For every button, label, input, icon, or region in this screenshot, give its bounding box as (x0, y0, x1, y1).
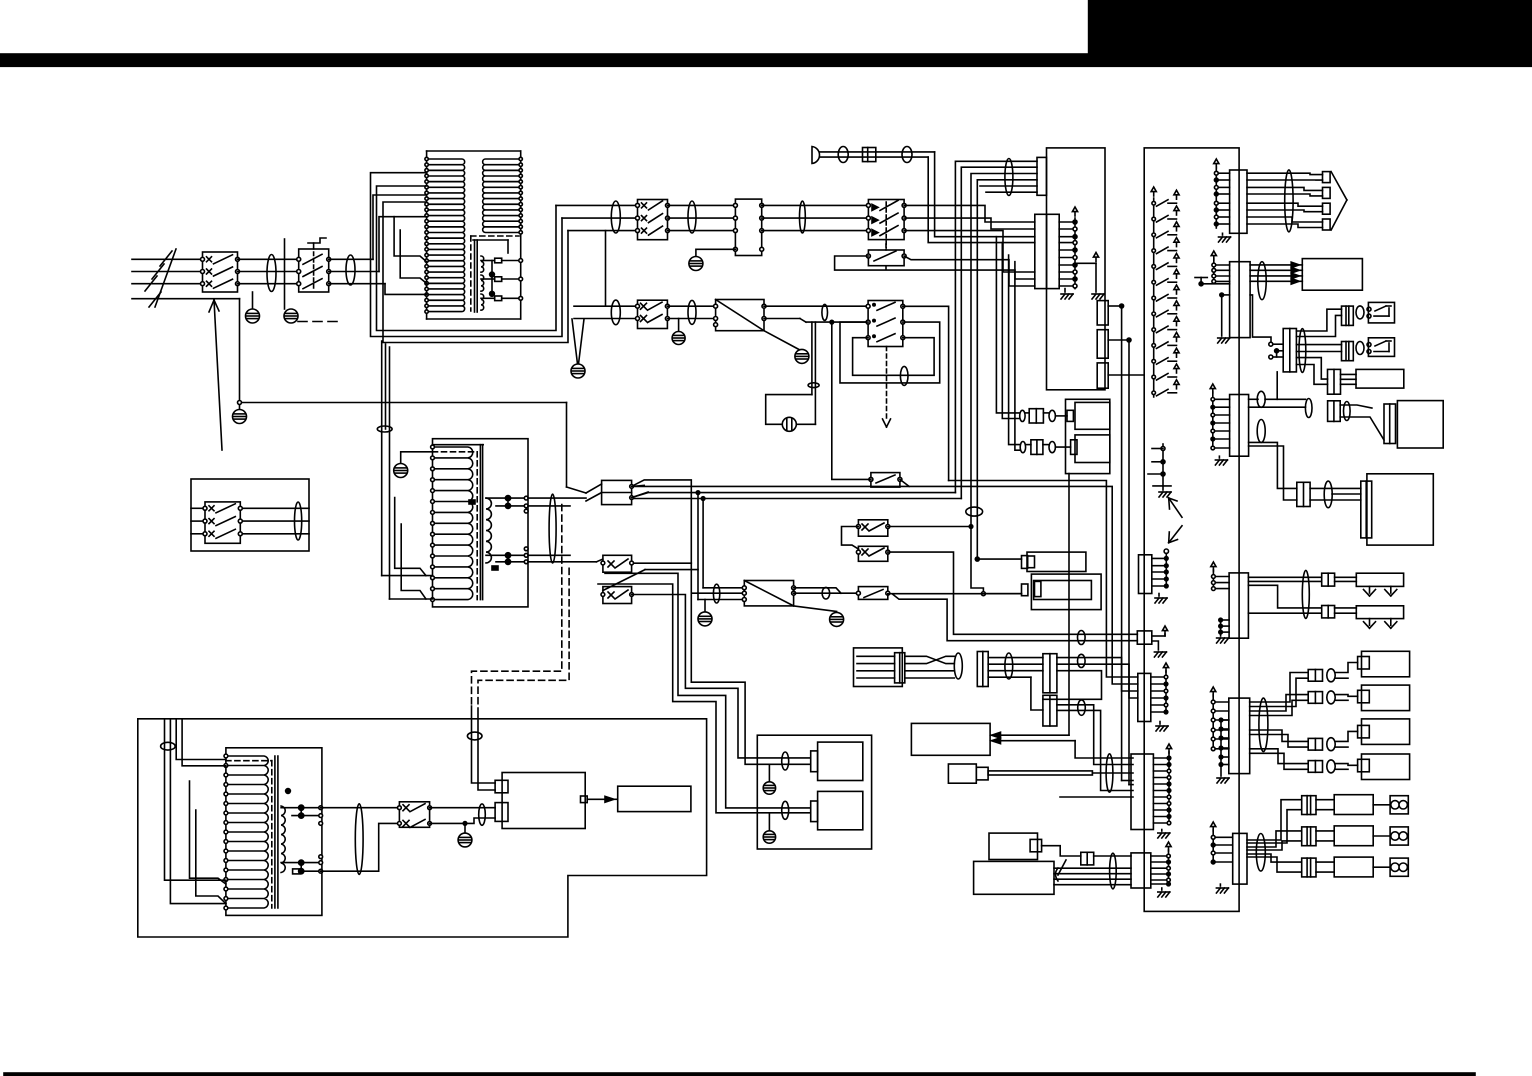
connector CN-R6 (1211, 822, 1247, 893)
wire H4 branch (701, 497, 705, 588)
ferrite bead FB23 (1005, 653, 1013, 679)
wire run H2 (632, 486, 1138, 684)
wire RB1 right (900, 479, 909, 486)
relay contact SWA (856, 520, 889, 536)
wire AC line 2 (132, 271, 203, 273)
speaker circuits x3 (1247, 795, 1408, 877)
connector CN-M1 (1269, 329, 1297, 372)
wire v1069 (1068, 474, 1070, 736)
ferrite bead FB4 (611, 201, 620, 233)
ground E5 (698, 600, 712, 626)
wire bus v2 (961, 167, 1037, 498)
harness to chevron CN-X1 (1247, 172, 1347, 230)
wire R2 aux (1250, 295, 1271, 344)
ferrite bead FB11 (822, 587, 830, 599)
wire v1075 (1075, 741, 1133, 758)
T2 primary pins (431, 445, 435, 601)
ferrite bead FB31 (161, 742, 176, 750)
connector CN-X2 (1328, 401, 1341, 422)
connector CN-X5 (1361, 481, 1372, 538)
wire RB1 left (830, 320, 871, 479)
connector CN-X4 (1297, 482, 1310, 506)
junction box B2 (1144, 148, 1239, 912)
wire SWA left (842, 527, 859, 550)
wire crossover (905, 656, 955, 678)
wire DB2 out a (794, 588, 841, 593)
cable bead big (355, 804, 363, 875)
wire T1 bottom wrap 1 (371, 173, 563, 337)
junction dots (490, 261, 495, 297)
wire horn pair (820, 152, 935, 157)
connector CN-M4 (1328, 369, 1341, 394)
heater H1 (1356, 573, 1403, 596)
wire run H3 (632, 493, 956, 498)
wire K2b loopB (840, 322, 940, 383)
wire RC drop a (811, 322, 813, 395)
wire T1 wrap left 2 (379, 217, 427, 272)
wire T3 in d (182, 719, 226, 766)
ferrite bead FB-M3 (1356, 342, 1364, 355)
T1 primary pins (425, 157, 428, 313)
T1 tertiary coil a (481, 256, 484, 272)
wire K2 out 3 (904, 231, 1035, 272)
speaker SP1 (811, 742, 863, 780)
wire T3 in b (170, 719, 226, 904)
horn HN1 (812, 147, 820, 164)
wire M row2 (1296, 345, 1341, 352)
cable duct (988, 771, 1133, 775)
switch SM2 (1367, 338, 1395, 357)
connector CN-B1 (1037, 157, 1047, 195)
wire bus v1 (955, 161, 1037, 492)
cable bead E2big (549, 494, 556, 563)
ferrite bead FB3 (377, 426, 392, 432)
wire K1 down 3 (1009, 255, 1020, 445)
T1 core dashed (471, 236, 519, 311)
fuse F3 (481, 296, 521, 301)
wire bus line 5 (980, 185, 1037, 187)
T3 secondary winding (281, 806, 285, 873)
ferrite bead FBd3 (822, 304, 828, 320)
wire shield pair to ground (571, 319, 585, 378)
wire T1 inner step 1 (394, 217, 427, 262)
ferrite bead FB14 (1258, 262, 1266, 300)
amplifier unit (495, 773, 585, 829)
wire AC line 3 (132, 283, 203, 285)
T3 primary winding (226, 756, 268, 908)
wire DB2 in1 (703, 587, 744, 589)
wire R3 a (1249, 391, 1306, 407)
transformer T1 frame (427, 151, 521, 319)
wire bus v4 (975, 180, 1037, 561)
phase slash marks (145, 249, 176, 307)
wire c1 out (1094, 855, 1131, 857)
wire spk2 feed b (598, 584, 811, 813)
speaker SP2 (811, 791, 863, 829)
connector CN-R1 (1214, 159, 1247, 242)
ferrite bead FB2 (346, 255, 355, 285)
option generator box (191, 479, 309, 551)
T2 primary winding (433, 447, 473, 600)
relay contact K3 (866, 244, 906, 271)
wire bus line 6 (986, 191, 1037, 193)
wire K1 down 1 (996, 237, 1019, 413)
wire DB1 out2 (764, 319, 868, 323)
connector CN-H2 (1322, 606, 1335, 618)
ferrite bead FB15 (1305, 399, 1312, 418)
connector CN-H (863, 148, 876, 162)
speaker unit box (757, 735, 871, 849)
T3 core lines (275, 756, 278, 908)
heater H2 (1356, 606, 1403, 628)
ferrite bead FB24 (1078, 654, 1086, 667)
unit BXc (989, 833, 1042, 859)
connector CN-L2 (1137, 626, 1167, 657)
wire R3 b (1249, 406, 1306, 408)
ferrite bead FB26 (1106, 754, 1113, 792)
wire M row3b (1341, 374, 1357, 384)
ferrite bead FB9 (1005, 159, 1013, 196)
radio unit (1302, 259, 1362, 291)
rectifier DB1 (714, 300, 766, 331)
PSU switch SW6 (398, 802, 432, 828)
connector CN-M3 (1342, 342, 1354, 361)
aux unit M5 (1356, 369, 1404, 388)
wire BXa arrows (992, 732, 1076, 744)
connector CN-L4 (1131, 744, 1172, 838)
ferrite bead FB-M1 (1299, 329, 1306, 373)
T2 out lower (528, 555, 596, 562)
wire shield solid b (478, 708, 495, 790)
ferrite bead FB1 (267, 255, 276, 292)
wire run H1 (632, 480, 692, 593)
capacitor CX (766, 395, 816, 432)
ferrite bead FB16 (1344, 402, 1351, 421)
amp output (581, 796, 618, 803)
ferrite bead FB27 (1110, 853, 1117, 889)
wire M row1 (1296, 309, 1341, 336)
T2 inner route b (401, 524, 426, 599)
wire T1 inner step 2 (400, 230, 426, 283)
connector CN-L3 (1138, 663, 1169, 731)
ferrite bead FB17 (1257, 420, 1265, 443)
wire BXc out (1042, 846, 1081, 856)
ferrite bead FBd5 (900, 366, 908, 385)
wire T3 in c (176, 719, 226, 760)
wire spk1 feed b (691, 593, 810, 764)
wire K3 left U (835, 256, 1035, 279)
T2 secondary winding (486, 498, 491, 563)
wire K2 out 1 (904, 205, 1035, 222)
wire SW5b tie (603, 570, 698, 591)
bottom rule (4, 1073, 1475, 1075)
T2 taps (469, 496, 528, 571)
wire T1 bottom wrap 2 (377, 186, 557, 331)
CD changer B6 (1367, 474, 1433, 545)
wire K1 to FL1 (668, 205, 736, 230)
shield dashed run 1 (472, 505, 562, 706)
display box (618, 786, 691, 811)
ferrite bead FBd1 (611, 300, 620, 325)
connector CN-G1 (895, 653, 905, 683)
ground E10 (458, 822, 472, 847)
connector CN-G2 (977, 652, 988, 687)
switch SW5 (596, 555, 633, 572)
accessory box AB (1066, 399, 1110, 473)
connector CN-B1a (1097, 301, 1108, 325)
contactor K1 (636, 200, 670, 240)
ferrite bead FB20 (1259, 698, 1268, 751)
wire DB2 in3 (698, 599, 744, 601)
black header bar (0, 54, 1532, 66)
wire RB3 straight (888, 593, 1022, 595)
unit U1 (1022, 552, 1086, 571)
CN-K1 pin field (1059, 207, 1104, 299)
relay contact SWB (856, 546, 889, 561)
trapezoid connector CN-X3 (1340, 404, 1395, 444)
wire long v x1121 (1121, 306, 1123, 781)
ground E9 (763, 813, 775, 843)
wire horn down b (928, 157, 1035, 243)
wire DB2 in2 (691, 592, 744, 594)
T2 top wire (433, 444, 484, 446)
wire horn down a (935, 152, 1035, 237)
T2 inner route a (395, 498, 426, 576)
connector CN-M2 (1342, 306, 1354, 325)
wire SWB right (888, 552, 1138, 634)
connector CN-R5 (1211, 687, 1250, 783)
connector CN-B1c (1097, 363, 1108, 388)
wire BXd out (1054, 860, 1131, 885)
T3 dashed core (226, 761, 272, 908)
annotation arrow 2 (1169, 526, 1182, 543)
black title block (1089, 0, 1532, 66)
wire g2 out (988, 658, 1043, 678)
wire T3 out 1 (321, 807, 400, 809)
PSU outline (138, 719, 707, 937)
wire T1 down left b (389, 347, 391, 599)
lamp circuits x4 (1250, 651, 1410, 779)
fuse F2 (481, 277, 521, 282)
wire shield solid a (472, 706, 496, 783)
wire spk1 feed a (632, 595, 811, 758)
connector CN-L5 (1131, 842, 1171, 897)
wire run H0 (949, 481, 1138, 678)
wire T1 down left a (381, 341, 383, 576)
acc row2 (1020, 440, 1077, 455)
unit U2 (1022, 574, 1102, 610)
wire T1 wrap left 3 (385, 284, 427, 295)
wire AC line 1 (132, 258, 203, 260)
control box BXa (911, 723, 990, 755)
B2 fuse/switch column (1151, 187, 1179, 397)
annotation arrow 1 (1169, 498, 1182, 517)
control unit B1 (1047, 148, 1106, 390)
wire DB1 out1 (764, 305, 868, 307)
relay RB1 (869, 473, 902, 488)
wire K3 right (904, 256, 1035, 286)
connector CN-G4 (1043, 695, 1057, 726)
T1 primary winding (427, 159, 465, 312)
wire riser to DC row (605, 231, 607, 307)
ferrite bead FB19 (1302, 570, 1309, 618)
T1 tertiary coil c (481, 294, 484, 310)
connector CN-L1 (1139, 549, 1169, 603)
switch SM1 (1367, 302, 1395, 323)
wire heater 1 (1248, 577, 1356, 581)
wire to TC1 (567, 403, 587, 494)
ground E8 (763, 764, 775, 794)
wire K2a to DB1 (667, 306, 715, 318)
contactor K2a (636, 300, 670, 328)
wire AC line 4 (132, 298, 240, 300)
wire H3 branch (696, 491, 700, 600)
ferrite bead FB7 (838, 147, 848, 163)
ferrite bead FB-M2 (1356, 306, 1364, 319)
wire B1b (1108, 338, 1131, 342)
T2 dashed core (433, 452, 478, 600)
T1 secondary winding upper (483, 159, 521, 233)
ferrite bead FB6 (800, 201, 806, 233)
wire stub (284, 239, 286, 309)
wire g3 out b (1057, 664, 1138, 698)
ferrite bead FB28 (467, 732, 482, 740)
T2 left wires (382, 576, 433, 599)
ferrite bead FB5 (688, 201, 696, 233)
display unit D1 (1397, 401, 1443, 448)
circuit breaker CB1 (201, 252, 240, 292)
ferrite bead FB25 (1078, 700, 1086, 715)
wire K2b loopA (853, 338, 935, 376)
leader arrow (209, 300, 222, 450)
wire B1a (1108, 304, 1123, 308)
ferrite bead FB21 (1256, 834, 1265, 872)
ground E1 (246, 292, 260, 323)
connector CN-G3 (1043, 654, 1057, 693)
wire K2 out 2 (904, 218, 1035, 229)
ferrite bead FB30 (782, 801, 789, 819)
wire R3 down a (1249, 442, 1297, 488)
wire B1c (1108, 374, 1144, 376)
ferrite bead FB13 (1285, 170, 1293, 232)
wire long v x1129 (1128, 340, 1130, 785)
wire K1 down 4 (1015, 262, 1020, 451)
ground Ed2 (764, 331, 809, 364)
ferrite bead FB12 (966, 507, 983, 516)
unit BXd (974, 861, 1054, 894)
wire T3 in a (165, 719, 226, 880)
wires to radio (1250, 262, 1302, 284)
ferrite bead FB8 (902, 147, 912, 163)
ferrite bead FBd4 (808, 383, 819, 388)
wire M down (1276, 372, 1278, 399)
T2 core lines (480, 445, 482, 600)
ground E7 (394, 452, 433, 478)
main switch S2 (297, 238, 331, 292)
ground E2 (284, 309, 342, 323)
T2 out upper (528, 498, 586, 506)
wire 3ph run (556, 205, 638, 230)
ground E3 (233, 405, 247, 424)
T1 inner wires (473, 240, 523, 300)
connector CN-R4 (1211, 562, 1249, 643)
connector CN-K1 (1035, 214, 1059, 288)
DC converter DB2 (742, 581, 795, 606)
wire T1 wrap left 1 (373, 195, 427, 259)
connector CN-R3 (1210, 384, 1248, 465)
T1 core lines (475, 240, 478, 312)
wire T1 down left c (385, 344, 387, 429)
ferrite bead FB10 (713, 584, 719, 603)
ground E4 (689, 249, 736, 270)
T1 secondary pins (519, 157, 522, 234)
wire T1 bottom wrap 3 (383, 202, 568, 343)
wire K1 down 2 (1002, 243, 1019, 419)
wire heater 2 (1248, 585, 1356, 613)
connector CN-C1 (1081, 852, 1094, 865)
wire S2 to T1 (329, 259, 385, 283)
acc row1 (1020, 409, 1074, 423)
ferrite bead FBd2 (688, 300, 696, 324)
sensor box BXb (948, 764, 988, 783)
wire to B6 (1310, 488, 1361, 500)
wire SW5 tie (632, 562, 692, 564)
T3 inner route b (196, 810, 226, 904)
T3 inner route a (190, 781, 226, 884)
wire SW6 out 2 (430, 818, 496, 823)
wire spk2 feed a (605, 573, 811, 808)
T3 frame (226, 748, 322, 916)
T1 tertiary coil b (481, 275, 484, 291)
wire SWA right (888, 525, 973, 529)
wire g3 down (1031, 671, 1102, 710)
shield dashed run 2 (478, 568, 569, 708)
wire M row3 (1296, 358, 1327, 385)
relay contact K2b (866, 301, 905, 428)
switch SW5b (601, 587, 633, 604)
relay RB3 (856, 587, 889, 600)
ferrite bead FB24b (1078, 631, 1086, 645)
antenna tuner box (854, 648, 903, 687)
wire DB2 out b (794, 592, 859, 594)
ferrite bead FB18 (1324, 481, 1332, 508)
wire SW6 out 1 (430, 807, 496, 809)
wire RB3 branch (893, 595, 1137, 641)
fuse F1 (481, 258, 521, 263)
T3 primary pins (224, 754, 228, 910)
wire RC drop b (814, 322, 816, 424)
filter FL1 (733, 199, 763, 255)
T2 frame (433, 439, 529, 607)
wire R3 down b (1249, 446, 1297, 500)
T3 taps (281, 789, 323, 874)
wire FL1 to K2 (762, 205, 869, 230)
wire DC row in (574, 306, 638, 318)
wire T3 out 2 (321, 823, 400, 871)
connector TC1 (586, 480, 648, 504)
wire K2b out1 (903, 306, 949, 480)
wire K5 feeds (1060, 781, 1133, 798)
ground E6 (794, 606, 844, 627)
ferrite bead FB29 (782, 752, 789, 770)
wire bus v3 (971, 174, 1037, 596)
ferrite bead FB32 (479, 804, 486, 825)
wire g3 out a (1057, 658, 1138, 691)
ferrite bead FB22 (954, 653, 962, 679)
wire neutral run (238, 299, 567, 405)
wire CB1 to S2 (238, 259, 299, 283)
B2 internal tie point (1148, 444, 1171, 497)
